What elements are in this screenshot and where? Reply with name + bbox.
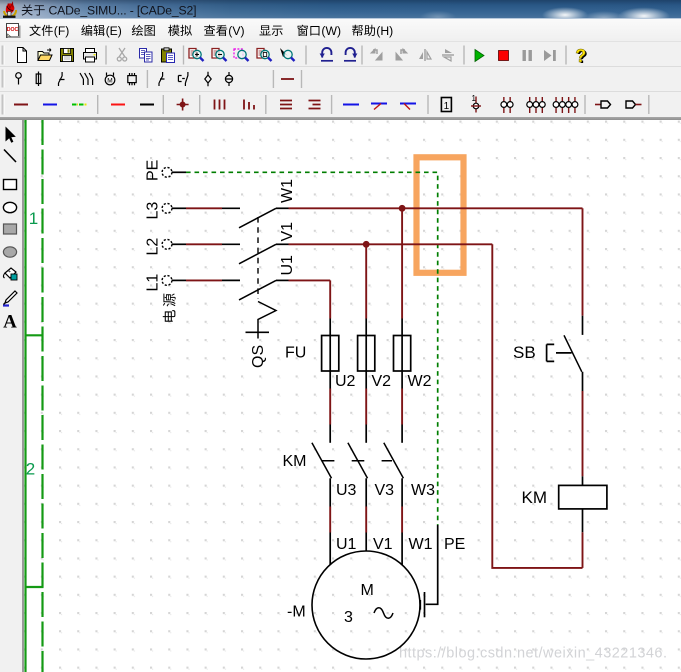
- svg-text:PE: PE: [145, 160, 162, 181]
- svg-text:1: 1: [444, 101, 450, 112]
- svg-text:2: 2: [26, 460, 35, 479]
- svg-text:DOC: DOC: [7, 27, 19, 33]
- svg-text:3: 3: [344, 609, 353, 626]
- svg-text:L1: L1: [145, 274, 162, 292]
- svg-text:FU: FU: [285, 345, 306, 362]
- svg-text:L3: L3: [145, 202, 162, 220]
- svg-text:(H): (H): [376, 24, 393, 38]
- svg-text:?: ?: [575, 46, 586, 66]
- svg-text:-M: -M: [287, 604, 306, 621]
- svg-text:(W): (W): [321, 24, 341, 38]
- svg-text:U1: U1: [336, 536, 357, 553]
- svg-text:KM: KM: [283, 453, 307, 470]
- svg-text:SB: SB: [513, 343, 536, 362]
- svg-text:V3: V3: [375, 482, 395, 499]
- svg-text:1: 1: [472, 94, 477, 103]
- svg-text:W1: W1: [279, 179, 296, 203]
- svg-text:(F): (F): [54, 24, 70, 38]
- svg-text:V2: V2: [372, 373, 392, 390]
- svg-text:W2: W2: [408, 373, 432, 390]
- svg-text:(V): (V): [228, 24, 244, 38]
- svg-text:QS: QS: [250, 345, 267, 368]
- svg-text:M: M: [361, 582, 374, 599]
- svg-text:V1: V1: [279, 222, 296, 242]
- svg-text:CADe_SIMU... - [CADe_S2]: CADe_SIMU... - [CADe_S2]: [49, 4, 197, 18]
- svg-text:PE: PE: [444, 536, 465, 553]
- svg-text:U3: U3: [336, 482, 357, 499]
- svg-text:U1: U1: [279, 255, 296, 276]
- svg-text:V1: V1: [373, 536, 393, 553]
- svg-text:L2: L2: [145, 238, 162, 256]
- svg-text:(E): (E): [106, 24, 122, 38]
- svg-text:M: M: [107, 78, 112, 85]
- svg-text:W3: W3: [411, 482, 435, 499]
- svg-text:1: 1: [29, 209, 38, 228]
- svg-text:W1: W1: [409, 536, 433, 553]
- svg-text:KM: KM: [522, 488, 548, 507]
- svg-text:A: A: [3, 312, 17, 333]
- svg-text:+: +: [8, 269, 11, 275]
- svg-text:https://blog.csdn.net/weixin_4: https://blog.csdn.net/weixin_43221346.: [399, 646, 667, 662]
- svg-text:U2: U2: [335, 373, 356, 390]
